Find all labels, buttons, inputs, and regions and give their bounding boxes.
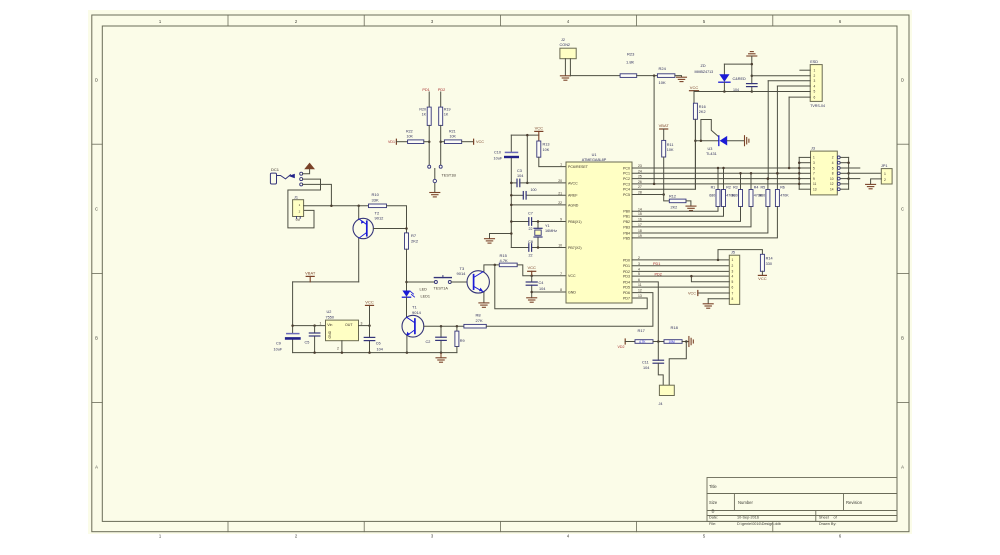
svg-text:OUT: OUT	[345, 323, 353, 327]
svg-text:10: 10	[558, 244, 562, 248]
svg-text:9: 9	[813, 177, 815, 181]
svg-text:22: 22	[529, 254, 533, 258]
resistor R19	[440, 92, 442, 107]
svg-text:10K: 10K	[659, 80, 666, 85]
svg-text:PD2: PD2	[438, 88, 445, 92]
wire AGND	[511, 204, 566, 206]
svg-text:PD3: PD3	[623, 275, 630, 279]
svg-text:21: 21	[558, 191, 562, 195]
svg-text:6: 6	[832, 166, 834, 170]
wire PD5	[632, 286, 729, 288]
svg-text:D: D	[95, 78, 98, 83]
capacitor C&RED	[747, 83, 758, 85]
svg-text:PD1: PD1	[623, 264, 630, 268]
resistor R24	[657, 74, 675, 78]
svg-text:20: 20	[558, 179, 562, 183]
svg-text:6: 6	[814, 95, 816, 99]
svg-text:PB5: PB5	[623, 236, 630, 240]
svg-text:11: 11	[813, 182, 817, 186]
svg-text:2K2: 2K2	[411, 238, 419, 243]
capacitor C9 electrolytic	[287, 333, 299, 335]
svg-text:27: 27	[638, 185, 642, 189]
svg-text:PC3: PC3	[623, 182, 630, 186]
svg-text:C: C	[95, 207, 98, 212]
wire ESD pin2 to cap column	[752, 75, 810, 77]
svg-text:B: B	[712, 509, 715, 514]
rotated ground at TL431	[744, 136, 746, 146]
wire R20 to pad	[428, 125, 430, 165]
svg-text:Number: Number	[738, 500, 753, 505]
svg-text:7550: 7550	[326, 315, 334, 319]
svg-text:2: 2	[832, 156, 834, 160]
wire U2 out	[359, 325, 370, 327]
connector J1 battery	[293, 200, 304, 217]
power VCC above C6	[369, 305, 371, 337]
ground under C4	[527, 297, 537, 299]
svg-text:C2: C2	[426, 340, 431, 344]
IC U1 ATMEGA8	[566, 162, 632, 303]
svg-text:VCC: VCC	[690, 85, 699, 90]
sheet inner border	[102, 26, 897, 521]
wire AVCC riser to VCC node	[526, 135, 528, 183]
resistor R11	[662, 140, 666, 157]
svg-text:10K: 10K	[543, 148, 550, 152]
svg-text:C9: C9	[276, 342, 281, 346]
svg-text:PB6(X1): PB6(X1)	[568, 220, 582, 224]
svg-text:6: 6	[732, 285, 734, 289]
wire column top to VCC/R13	[511, 134, 539, 136]
wire PD0	[632, 259, 729, 261]
wire R15 to VCC pin7	[517, 265, 566, 276]
svg-text:18: 18	[638, 229, 642, 233]
wire VD1 to R22	[396, 141, 407, 143]
svg-text:4: 4	[814, 84, 816, 88]
svg-text:3: 3	[813, 161, 815, 165]
svg-text:U1: U1	[592, 153, 597, 157]
svg-text:R14: R14	[766, 257, 773, 261]
svg-text:AGND: AGND	[568, 203, 579, 207]
svg-text:100: 100	[531, 188, 537, 192]
svg-text:10K: 10K	[407, 134, 414, 138]
svg-text:1: 1	[814, 69, 816, 73]
svg-text:10K: 10K	[667, 148, 674, 152]
svg-text:R9: R9	[460, 339, 465, 343]
wire J5 pin5 jog from PD3	[691, 276, 729, 282]
svg-text:28: 28	[638, 191, 642, 195]
svg-text:D: D	[901, 78, 904, 83]
capacitor C7 on XTAL1	[511, 221, 529, 223]
svg-text:5: 5	[732, 280, 734, 284]
svg-text:8: 8	[560, 288, 562, 292]
svg-text:PD6: PD6	[623, 291, 630, 295]
switch TEST1A	[407, 281, 435, 283]
wire ESD pin4 riser to PC1	[777, 85, 810, 87]
wire PC5 to R11/R12 node	[632, 194, 664, 196]
wire R18 node to J4	[669, 342, 686, 386]
svg-text:25: 25	[638, 175, 642, 179]
svg-text:3: 3	[361, 321, 363, 325]
svg-text:R11: R11	[667, 143, 674, 147]
wire R1 to PB0	[632, 207, 718, 212]
svg-text:R13: R13	[543, 143, 550, 147]
IC ESD TVRS-04	[810, 65, 822, 102]
svg-text:R5: R5	[760, 186, 765, 190]
svg-text:PD0: PD0	[623, 258, 630, 262]
svg-text:R3: R3	[733, 186, 738, 190]
capacitor C3 on AVCC	[511, 182, 517, 184]
border column ticks	[227, 15, 229, 26]
svg-text:5: 5	[813, 166, 815, 170]
wire JP1 pin2 to ground	[871, 179, 882, 184]
wire ESD pin1 stub	[800, 69, 810, 71]
capacitor C6	[369, 341, 371, 353]
LED LED1	[402, 291, 410, 297]
svg-text:PB7(X2): PB7(X2)	[568, 246, 582, 250]
wire PD4 down to R17	[632, 282, 658, 342]
capacitor C10 electrolytic	[506, 151, 518, 153]
svg-text:26: 26	[638, 180, 642, 184]
svg-text:J2: J2	[561, 38, 565, 42]
connector JP1	[881, 169, 892, 184]
resistor R8	[464, 324, 486, 328]
svg-text:R22: R22	[406, 129, 413, 133]
svg-text:DC1: DC1	[271, 167, 280, 172]
power VBAT	[309, 276, 311, 282]
wire R12 to ground	[686, 201, 691, 206]
svg-text:R6: R6	[780, 186, 785, 190]
power VCC at J5 pin7	[698, 292, 730, 294]
power bar VD2	[624, 339, 626, 344]
wire ESD pin5 on VCC net	[752, 91, 810, 93]
svg-text:VCC: VCC	[476, 140, 484, 144]
svg-text:JP1: JP1	[881, 164, 888, 168]
svg-text:R17: R17	[638, 328, 646, 333]
svg-text:PC5: PC5	[623, 193, 630, 197]
svg-text:7: 7	[560, 272, 562, 276]
svg-text:PB1: PB1	[623, 215, 630, 219]
wire T3 collector to R15	[484, 265, 499, 271]
power ground triangle	[304, 163, 315, 170]
svg-text:T3: T3	[460, 266, 465, 271]
wire PD6 loop to T1 base	[486, 293, 653, 327]
DC1 plug arrow	[289, 174, 295, 178]
svg-text:1.8K: 1.8K	[626, 60, 635, 65]
wire R4 to PB3	[632, 207, 751, 227]
wire DC1 sleeve to ground	[303, 169, 310, 174]
power bar VD1	[395, 139, 397, 144]
svg-text:22: 22	[558, 201, 562, 205]
svg-text:7: 7	[732, 291, 734, 295]
svg-text:GND: GND	[568, 290, 576, 294]
svg-text:1: 1	[320, 321, 322, 325]
capacitor C1 on AREF	[511, 194, 523, 196]
svg-text:PB2: PB2	[623, 220, 630, 224]
svg-text:10M: 10M	[669, 340, 676, 344]
wire T3 emitter to ground	[483, 292, 485, 302]
wire PC4 to TL431 node	[632, 119, 695, 189]
svg-text:R19: R19	[444, 107, 451, 111]
resistor R15	[499, 263, 517, 267]
svg-text:GND: GND	[328, 330, 332, 338]
svg-text:Drawn By:: Drawn By:	[819, 522, 837, 526]
transistor T1 9014	[402, 315, 424, 337]
svg-text:10-Sep-2016: 10-Sep-2016	[737, 516, 759, 520]
wire PD7 loop to T3 collector node	[495, 265, 647, 309]
resistor R7	[405, 233, 409, 249]
svg-text:R4: R4	[754, 186, 759, 190]
svg-text:PC1: PC1	[623, 172, 630, 176]
resistor R21	[444, 140, 461, 144]
power VBAT above R11	[660, 128, 668, 130]
svg-text:4: 4	[832, 161, 834, 165]
resistor R17	[635, 340, 653, 344]
J3 left bus	[798, 157, 800, 189]
svg-text:19: 19	[638, 234, 642, 238]
resistor R3	[740, 173, 742, 189]
svg-text:5: 5	[814, 89, 816, 93]
resistor R2	[723, 168, 725, 190]
svg-text:3: 3	[732, 270, 734, 274]
svg-text:R1: R1	[711, 186, 716, 190]
wire cap column	[751, 56, 753, 84]
svg-text:R15: R15	[500, 253, 508, 258]
ground rail	[293, 352, 457, 354]
svg-text:C11: C11	[642, 360, 649, 364]
transistor T3 9014	[467, 271, 489, 293]
border row ticks	[92, 143, 103, 145]
wire PC3	[632, 183, 799, 185]
svg-text:R16: R16	[699, 105, 706, 109]
svg-text:4.7K: 4.7K	[639, 340, 646, 344]
svg-text:23: 23	[638, 164, 642, 168]
svg-text:4: 4	[638, 267, 640, 271]
svg-text:J5: J5	[731, 251, 735, 255]
wire LED to T1 collector	[406, 297, 408, 317]
svg-text:D:\genie\0016\Design.ddb: D:\genie\0016\Design.ddb	[737, 522, 781, 526]
svg-text:LED1: LED1	[421, 294, 431, 298]
svg-text:13: 13	[813, 188, 817, 192]
svg-text:PD2: PD2	[623, 270, 630, 274]
svg-text:680: 680	[759, 194, 765, 198]
resistor R14	[760, 254, 764, 271]
wire PD2	[632, 270, 729, 272]
node T2 emitter junction	[357, 205, 360, 208]
svg-text:PB3: PB3	[623, 225, 630, 229]
svg-text:1: 1	[560, 163, 562, 167]
svg-text:TEST1B: TEST1B	[442, 174, 457, 178]
capacitor C2	[440, 326, 442, 337]
wire J3 antenna stubs	[849, 167, 860, 169]
wire R3 to PB2	[632, 207, 741, 222]
crystal Y1	[537, 222, 539, 229]
wire T2 base	[373, 228, 406, 230]
transistor T2 9012	[353, 218, 373, 238]
shunt regulator U3 TL431	[695, 140, 718, 142]
svg-text:C4: C4	[539, 281, 544, 285]
wire R7 to LED	[406, 249, 408, 290]
inverted ground above cap	[747, 55, 757, 57]
wire T1 base	[424, 325, 464, 327]
power VCC above R13	[538, 131, 540, 141]
TEST1B ground pad	[434, 169, 436, 193]
svg-text:4.7K: 4.7K	[500, 258, 509, 263]
svg-text:R24: R24	[659, 66, 667, 71]
svg-text:VBAT: VBAT	[659, 123, 670, 128]
wire R10 to R7	[387, 206, 407, 233]
svg-text:680: 680	[732, 194, 738, 198]
svg-text:ESD: ESD	[810, 60, 818, 64]
svg-text:R2: R2	[726, 186, 731, 190]
wire distribution column	[510, 135, 512, 152]
connector J5	[729, 255, 739, 304]
svg-text:680: 680	[709, 194, 715, 198]
wire R18 right to ground	[682, 341, 689, 343]
wire PC1	[632, 172, 799, 174]
svg-text:VD2: VD2	[618, 345, 625, 349]
svg-text:11: 11	[638, 283, 642, 287]
svg-text:1: 1	[813, 156, 815, 160]
resistor R9	[456, 326, 458, 331]
power VCC under R14	[761, 271, 763, 275]
wire PC0	[632, 167, 799, 169]
svg-text:Revision: Revision	[846, 500, 863, 505]
svg-text:9012: 9012	[375, 216, 385, 221]
wire DC1 switch to J1 pin2	[288, 179, 321, 228]
wire PC2	[632, 178, 799, 180]
svg-text:470K: 470K	[780, 194, 789, 198]
svg-text:J1: J1	[294, 196, 298, 200]
wire U2 input	[293, 325, 326, 327]
svg-text:C&RED: C&RED	[733, 77, 747, 81]
svg-text:B: B	[95, 336, 98, 341]
wire J2 pin1 to ground	[564, 59, 566, 76]
capacitor C4	[531, 276, 533, 282]
wire R11 to PC5	[663, 157, 665, 195]
resistor R13	[537, 141, 541, 157]
regulator U2 7550	[326, 320, 359, 341]
svg-text:R12: R12	[669, 194, 676, 198]
capacitor C11	[657, 342, 659, 361]
wire ESD pin6 riser to PC0	[789, 96, 810, 98]
svg-text:10uF: 10uF	[274, 348, 283, 352]
svg-text:VCC: VCC	[365, 299, 374, 304]
connector J2 CON2	[560, 48, 576, 59]
svg-text:104: 104	[643, 366, 649, 370]
wire J2 pin2 to R23	[570, 59, 620, 76]
svg-text:File:: File:	[709, 522, 716, 526]
svg-text:J4: J4	[659, 402, 663, 406]
svg-text:9V: 9V	[296, 218, 301, 222]
svg-text:VCC: VCC	[688, 292, 696, 296]
svg-text:PD1: PD1	[422, 88, 429, 92]
resistor R4	[750, 173, 752, 189]
resistor R6	[776, 173, 778, 189]
svg-text:15: 15	[638, 212, 642, 216]
svg-text:330: 330	[766, 262, 772, 266]
svg-text:17: 17	[638, 223, 642, 227]
svg-text:2K2: 2K2	[671, 205, 678, 209]
svg-text:ATMEGA8L8P: ATMEGA8L8P	[582, 158, 607, 162]
svg-text:104: 104	[377, 348, 383, 352]
wire ZD top to cap column	[724, 63, 751, 65]
svg-text:VCC: VCC	[758, 276, 767, 281]
svg-text:B: B	[901, 336, 904, 341]
wire PD1	[632, 265, 729, 267]
wire GND pin8	[532, 291, 566, 293]
svg-text:13: 13	[638, 294, 642, 298]
svg-text:4: 4	[732, 274, 734, 278]
svg-text:T2: T2	[375, 210, 380, 215]
svg-text:C: C	[901, 207, 904, 212]
svg-text:104: 104	[733, 88, 739, 92]
svg-text:AVCC: AVCC	[568, 181, 578, 185]
svg-text:VCC: VCC	[527, 265, 536, 270]
svg-text:TVRS-04: TVRS-04	[810, 104, 825, 108]
capacitor C8 on XTAL2	[511, 247, 529, 249]
wires PB0-PB5	[631, 210, 634, 212]
wire J5 pin8 to ground	[708, 298, 729, 300]
svg-text:VCC: VCC	[568, 274, 576, 278]
svg-text:Sheet: Sheet	[819, 516, 830, 520]
wire left column C9	[292, 282, 294, 333]
svg-text:Y1: Y1	[545, 224, 550, 228]
svg-text:LED: LED	[420, 287, 428, 291]
svg-text:C3: C3	[517, 169, 522, 173]
svg-text:VD1: VD1	[388, 140, 395, 144]
svg-text:6: 6	[638, 278, 640, 282]
svg-text:33K: 33K	[372, 197, 379, 202]
svg-text:VBAT: VBAT	[305, 270, 316, 275]
svg-text:8: 8	[732, 297, 734, 301]
wire J3 to JP1	[849, 172, 882, 174]
svg-text:10: 10	[830, 177, 834, 181]
svg-text:U2: U2	[327, 310, 332, 314]
J3 right pads and stubs	[837, 156, 840, 159]
wire PD3	[632, 275, 729, 277]
wire R21 left	[441, 141, 445, 143]
power VCC top	[690, 90, 699, 92]
sheet outer border	[92, 15, 909, 532]
wire J1 pin1 to R10	[304, 205, 369, 207]
svg-text:C6: C6	[376, 342, 381, 346]
svg-text:2: 2	[638, 256, 640, 260]
wire VCC net	[694, 91, 810, 93]
wire R16 to TL431	[694, 119, 696, 189]
power VCC at pin7	[531, 271, 533, 276]
test pads TEST1B	[428, 165, 431, 168]
resistor R5	[767, 179, 769, 190]
svg-text:PD7: PD7	[623, 296, 630, 300]
resistor R23	[620, 74, 637, 78]
svg-text:MMBZ4713: MMBZ4713	[695, 70, 714, 74]
resistor R12	[669, 199, 686, 203]
svg-text:PD5: PD5	[623, 286, 630, 290]
svg-text:AREF: AREF	[568, 194, 578, 198]
svg-text:Date:: Date:	[709, 516, 718, 520]
svg-text:T1: T1	[412, 305, 417, 310]
connector DC1 barrel jack	[270, 173, 276, 184]
svg-text:7: 7	[813, 172, 815, 176]
svg-text:14: 14	[830, 188, 834, 192]
svg-text:1: 1	[732, 258, 734, 262]
svg-text:8: 8	[832, 172, 834, 176]
svg-text:9: 9	[560, 218, 562, 222]
svg-text:TEST1A: TEST1A	[434, 287, 449, 291]
connector J3	[811, 151, 838, 195]
DC1 pads	[300, 172, 303, 175]
svg-text:9014: 9014	[412, 310, 422, 315]
svg-text:ZD: ZD	[701, 64, 706, 68]
